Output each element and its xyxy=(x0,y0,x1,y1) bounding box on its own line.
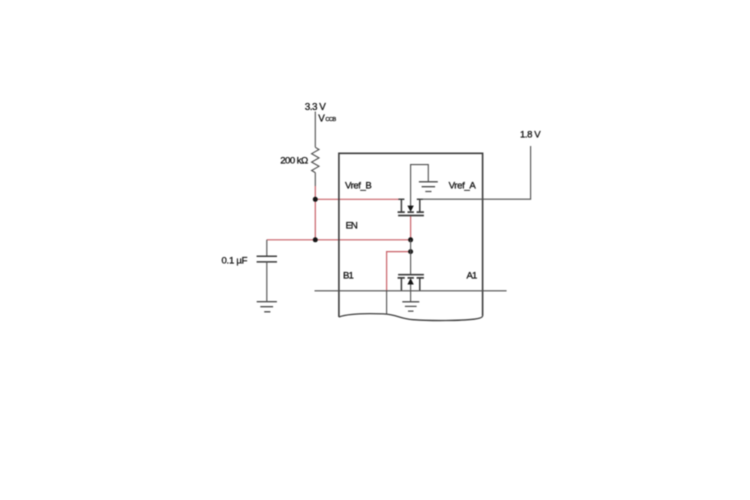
wire B1-A1 channel line xyxy=(315,290,507,292)
wire Q2 gate lead black xyxy=(410,240,412,275)
svg-text:3.3 V: 3.3 V xyxy=(305,102,327,113)
wire red node column down to EN xyxy=(314,199,316,240)
transistor Q1 gate bar xyxy=(398,215,424,217)
transistor Q2 source-drain stubs xyxy=(401,278,419,291)
pin label Vref_B xyxy=(345,181,372,192)
svg-text:Vref_A: Vref_A xyxy=(449,181,477,192)
ground G3 Q2 body xyxy=(402,302,419,311)
capacitor C1 0.1 uF top lead xyxy=(266,240,268,256)
pin label Vref_A xyxy=(449,181,477,192)
wire EN branch lower black segment xyxy=(386,291,388,314)
transistor Q1 channel segments xyxy=(398,211,424,213)
transistor Q1 source-drain stubs xyxy=(398,199,422,212)
net label VCCB xyxy=(318,113,336,124)
wire red Q1 gate lead xyxy=(410,216,412,240)
IC box U1 outline xyxy=(339,153,483,317)
svg-text:CCB: CCB xyxy=(325,117,336,123)
node junction dot D xyxy=(408,249,413,254)
wire VCCB vertical lead xyxy=(314,112,316,148)
transistor Q2 gate bar xyxy=(398,274,424,276)
ground G2 capacitor xyxy=(257,302,277,312)
wire red EN horizontal xyxy=(267,239,411,241)
wire red EN branch to B1 xyxy=(387,252,411,291)
wire red Vref_B horizontal xyxy=(315,198,401,200)
transistor Q2 channel segments xyxy=(398,277,424,279)
pin label B1 xyxy=(343,271,354,282)
resistor R1 200 kOhm xyxy=(312,147,319,172)
svg-text:1.8 V: 1.8 V xyxy=(520,129,541,140)
pin label EN xyxy=(346,220,358,231)
node junction dot A xyxy=(313,197,318,202)
capacitor C1 bottom lead xyxy=(266,262,268,302)
svg-text:200 kΩ: 200 kΩ xyxy=(280,156,308,167)
pin label A1 xyxy=(467,271,478,282)
transistor Q1 body arrow xyxy=(407,165,428,212)
ground G1 Q1 body xyxy=(419,182,438,192)
transistor Q2 body arrow xyxy=(407,278,413,302)
IC box U1 torn bottom edge xyxy=(339,314,483,321)
value label 200 kOhm xyxy=(280,156,308,167)
label 3.3 V xyxy=(305,102,327,113)
svg-text:0.1 µF: 0.1 µF xyxy=(222,256,248,267)
wire Vref_A to 1.8 V supply xyxy=(420,146,531,199)
capacitor C1 plates xyxy=(257,256,277,262)
wire red resistor to Vref_B node xyxy=(314,186,316,199)
node junction dot C xyxy=(408,237,413,242)
svg-text:A1: A1 xyxy=(467,271,478,282)
label 1.8 V xyxy=(520,129,541,140)
svg-text:B1: B1 xyxy=(343,271,354,282)
svg-text:Vref_B: Vref_B xyxy=(345,181,372,192)
svg-text:V: V xyxy=(318,113,325,124)
wire resistor bottom black segment xyxy=(314,173,316,186)
svg-text:EN: EN xyxy=(346,220,358,231)
value label 0.1 uF xyxy=(222,256,248,267)
node junction dot B xyxy=(313,237,318,242)
